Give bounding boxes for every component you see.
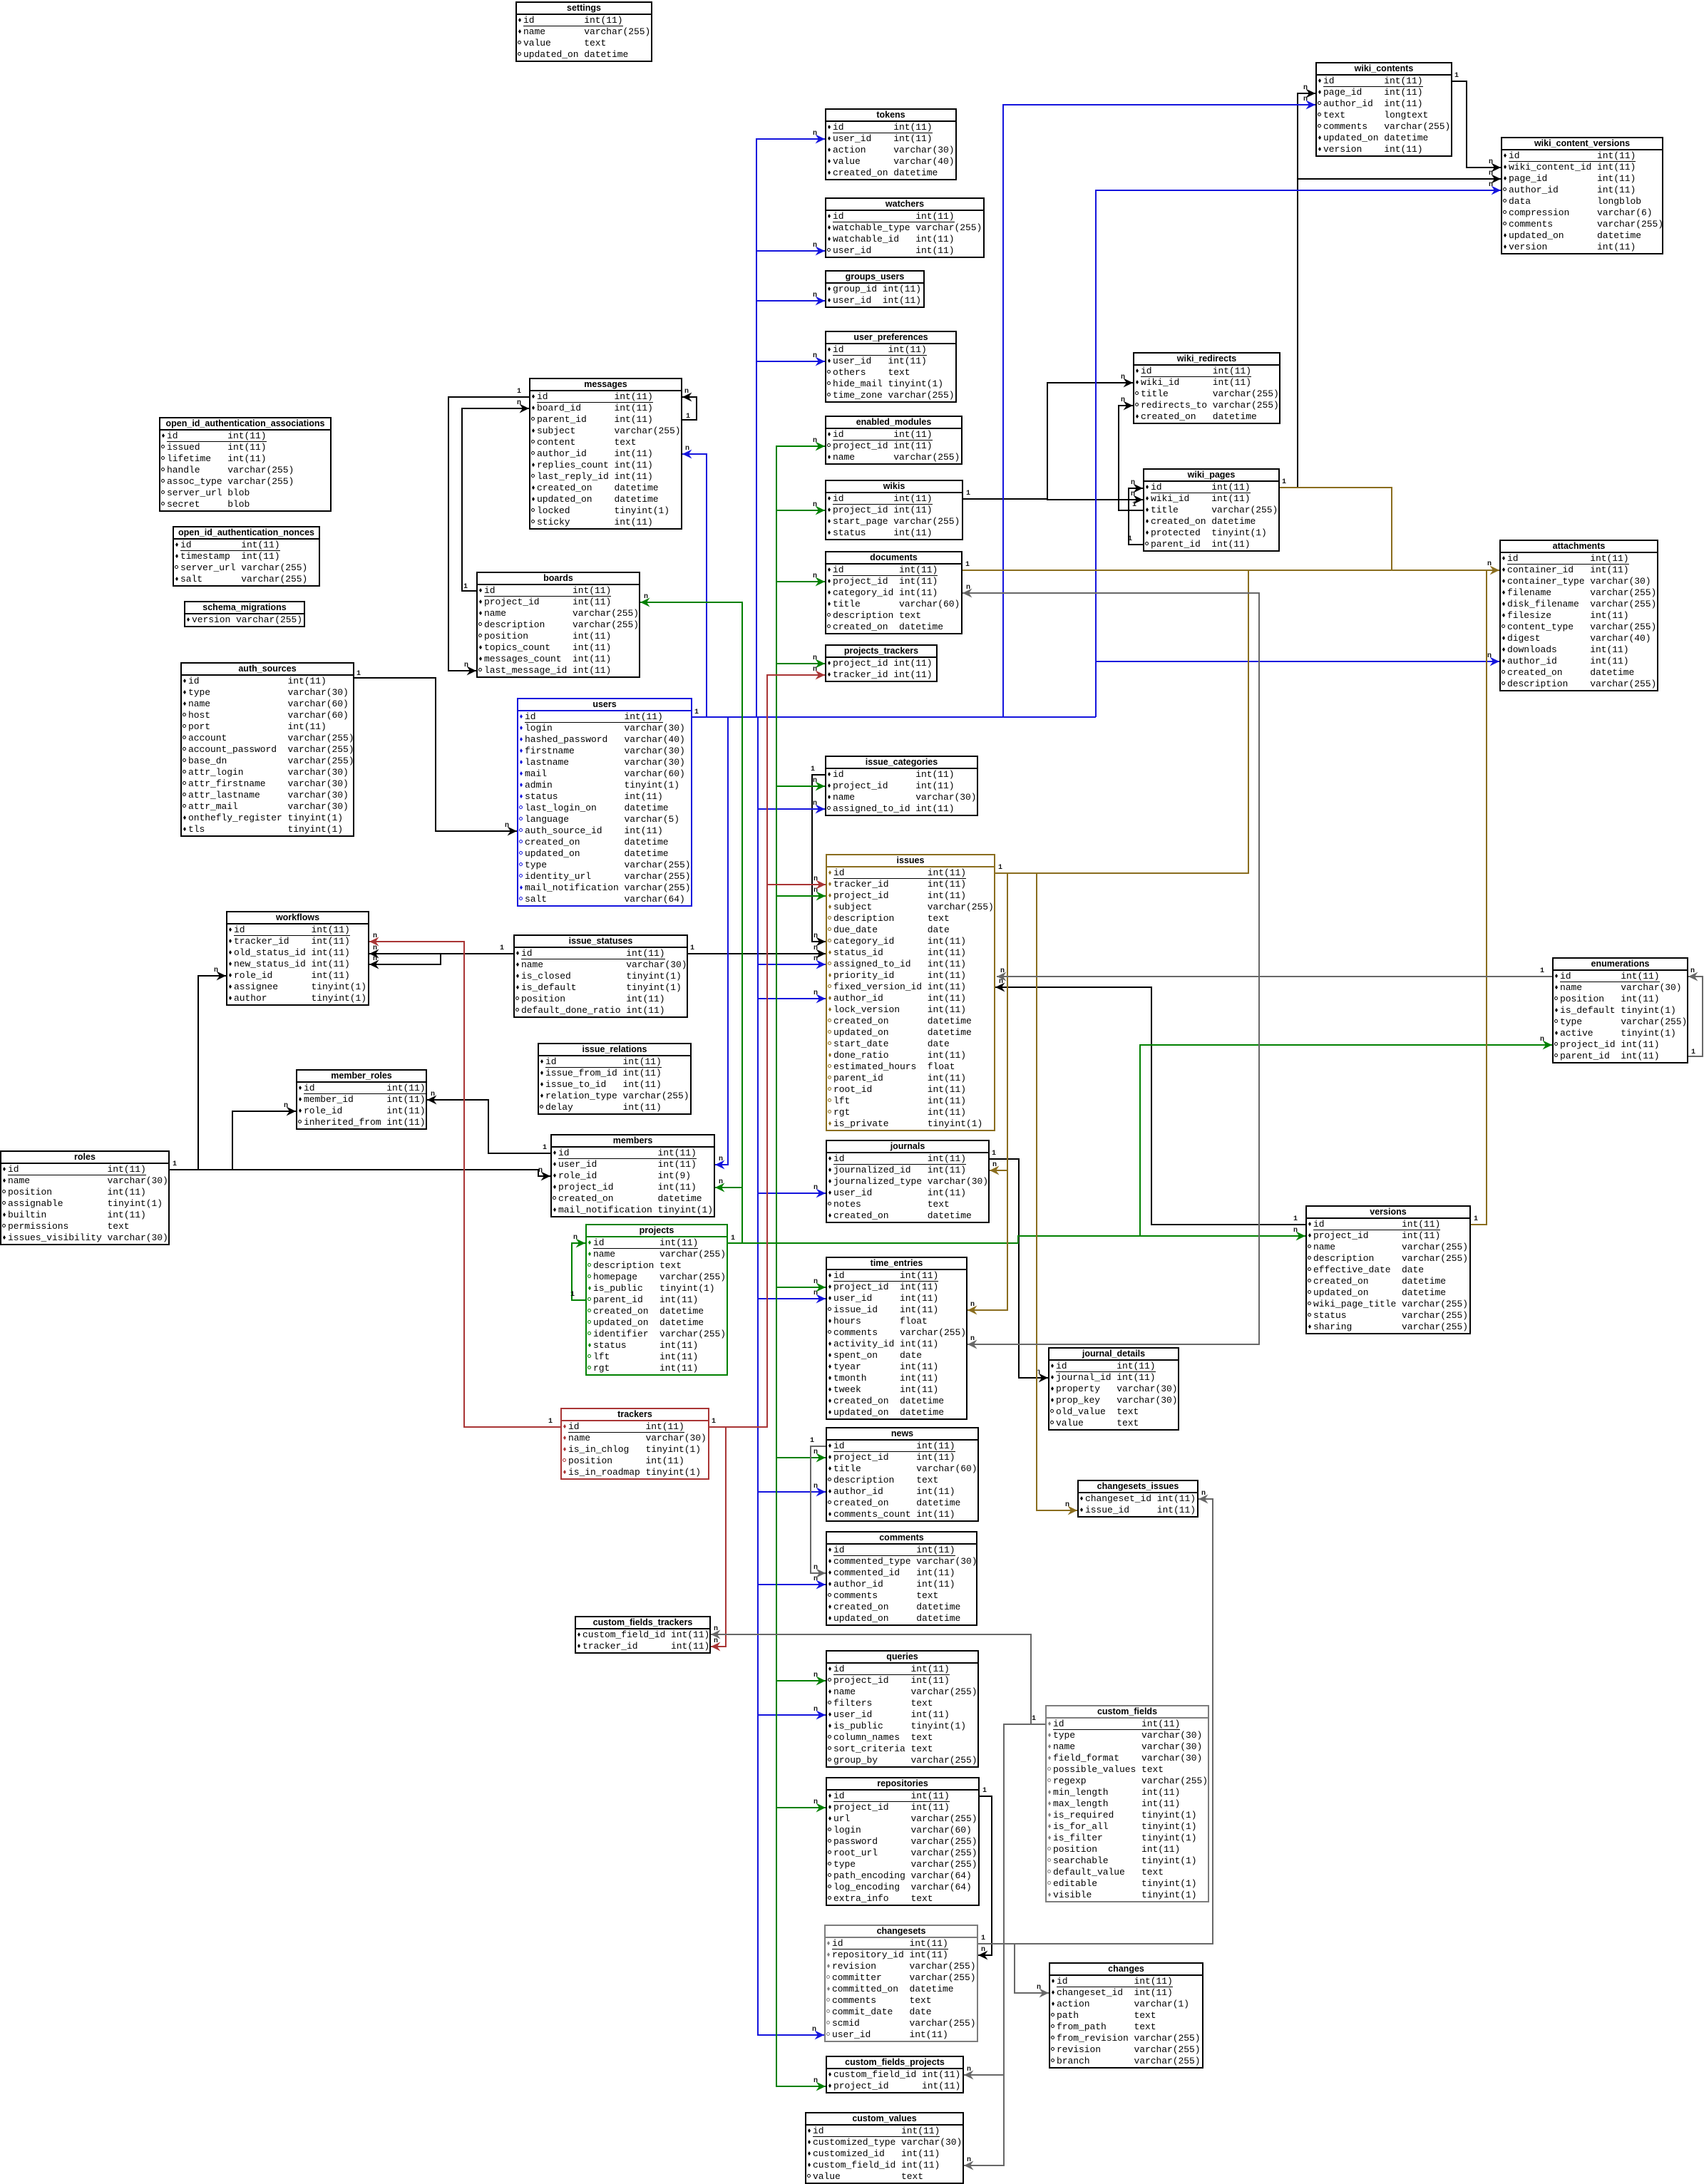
svg-text:n: n <box>812 2026 816 2034</box>
svg-text:n: n <box>714 1625 718 1633</box>
svg-text:1: 1 <box>1032 1715 1036 1723</box>
svg-text:n: n <box>813 1278 818 1286</box>
table wiki_content_versions <box>1501 137 1663 254</box>
svg-text:1: 1 <box>998 864 1002 872</box>
svg-text:1: 1 <box>173 1160 177 1168</box>
wire fk workflows.old_status_id/new_status_id -&gt; issue_statuses.id <box>369 953 513 954</box>
wire fk issues.priority_id -&gt; enumerations.id <box>997 976 1552 977</box>
wire fk issues.assigned_to_id -&gt; users.id <box>758 964 826 965</box>
svg-text:1: 1 <box>1474 1215 1478 1223</box>
wire fk wcv.author_id -&gt; users.id <box>1096 190 1501 717</box>
svg-text:n: n <box>373 955 377 963</box>
svg-text:1: 1 <box>690 944 694 952</box>
table members <box>550 1134 715 1217</box>
wire fk watchers.user_id -&gt; users.id <box>756 250 825 252</box>
table settings <box>515 1 652 62</box>
svg-text:n: n <box>644 593 648 601</box>
svg-text:n: n <box>719 1178 723 1186</box>
wire fk member_roles.member_id -&gt; members.id <box>427 1100 550 1153</box>
svg-text:n: n <box>992 1161 997 1169</box>
wire fk issues.tracker_id -&gt; trackers.id <box>709 675 825 1427</box>
svg-text:n: n <box>813 654 817 662</box>
svg-text:n: n <box>813 352 817 360</box>
svg-text:n: n <box>813 955 818 963</box>
wire fk queries.project_id -&gt; projects.id <box>776 1680 826 1681</box>
table journal_details <box>1048 1347 1179 1431</box>
svg-text:n: n <box>813 1184 818 1192</box>
table versions <box>1305 1205 1471 1334</box>
wire fk workflows.new_status_id -&gt; issue_statuses.id (branch) <box>369 954 441 964</box>
table open_id_authentication_nonces <box>173 526 320 587</box>
svg-text:1: 1 <box>811 766 815 773</box>
wire fk issues.project_id -&gt; projects.id <box>776 895 826 897</box>
svg-text:n: n <box>813 777 817 785</box>
table auth_sources <box>180 662 354 837</box>
table wiki_pages <box>1143 468 1280 552</box>
wire fk time_entries.project_id branch <box>776 1287 826 1288</box>
wire fk comments.author_id -&gt; users.id <box>758 1584 826 1585</box>
wire fk members.user_id -&gt; users.id <box>715 717 728 1165</box>
table issue_categories <box>825 756 978 816</box>
svg-text:1: 1 <box>1128 535 1132 543</box>
table trackers <box>560 1408 709 1480</box>
table journals <box>826 1140 990 1223</box>
wire fk members.role_id -&gt; roles.id <box>198 1170 550 1176</box>
svg-text:1: 1 <box>356 670 361 678</box>
wire fk attachments.container_id -&gt; documents.id <box>963 570 1499 571</box>
wire fk enumerations.parent_id -&gt; enumerations.id (self) <box>1688 977 1703 1056</box>
wire fk attachments.container_id -&gt; versions.id <box>1471 570 1487 1225</box>
wire fk issues.fixed_version_id -&gt; versions.id <box>995 987 1305 1225</box>
svg-text:n: n <box>970 1301 975 1309</box>
svg-text:n: n <box>1489 181 1493 189</box>
wire fk custom_fields_trackers.tracker_id -&gt; trackers.id <box>711 1427 726 1647</box>
wire fk time_entries.issue_id -&gt; issues.id <box>968 1170 1007 1310</box>
table tokens <box>825 108 957 180</box>
wire fk (many).user_id -&gt; users.id trunk <box>692 716 1096 718</box>
wire fk projects_trackers.project_id -&gt; projects.id <box>776 663 825 664</box>
wire fk journal_details.journal_id -&gt; journals.id <box>990 1159 1048 1378</box>
table enabled_modules <box>825 416 963 465</box>
table projects <box>585 1224 728 1376</box>
svg-text:n: n <box>813 437 817 445</box>
svg-text:1: 1 <box>1132 501 1136 509</box>
svg-text:1: 1 <box>686 413 690 421</box>
svg-text:n: n <box>1303 96 1308 103</box>
svg-text:n: n <box>373 944 377 952</box>
svg-text:1: 1 <box>1293 1215 1298 1223</box>
wire fk issues.author_id -&gt; users.id <box>758 998 826 999</box>
svg-text:n: n <box>538 1167 543 1175</box>
svg-text:1: 1 <box>981 1935 985 1942</box>
wire fk changesets_issues.issue_id -&gt; issues.id <box>1037 873 1077 1510</box>
svg-text:n: n <box>1121 374 1125 381</box>
wire fk wiki_contents.page_id / wcv.page_id -&gt; wiki_pages.id <box>1280 93 1315 488</box>
svg-text:n: n <box>813 875 818 883</box>
svg-text:n: n <box>517 399 521 407</box>
wire fk custom_fields_projects.custom_field_id branch <box>964 2074 1004 2076</box>
table custom_fields_projects <box>826 2056 964 2093</box>
table wiki_contents <box>1315 62 1452 157</box>
table changesets_issues <box>1077 1480 1199 1518</box>
svg-text:1: 1 <box>1540 967 1544 975</box>
svg-text:1: 1 <box>712 1418 716 1426</box>
svg-text:n: n <box>813 130 817 138</box>
svg-text:1: 1 <box>1454 72 1459 80</box>
table issues <box>826 854 995 1131</box>
table schema_migrations <box>184 601 305 627</box>
svg-text:n: n <box>1201 1490 1206 1498</box>
svg-text:1: 1 <box>731 1235 735 1242</box>
svg-text:n: n <box>813 1706 818 1714</box>
svg-text:n: n <box>813 292 817 299</box>
svg-text:n: n <box>1065 1501 1069 1509</box>
svg-text:n: n <box>1487 560 1492 568</box>
wire fk changes.changeset_id -&gt; changesets.id <box>1015 1944 1049 1993</box>
table projects_trackers <box>825 644 938 682</box>
table news <box>826 1427 979 1522</box>
wire fk messages.board_id -&gt; boards.id <box>462 408 529 591</box>
wire fk boards.last_message_id -&gt; messages.id <box>448 397 529 671</box>
table user_preferences <box>825 331 957 403</box>
svg-text:n: n <box>981 1946 985 1954</box>
wire fk members.project_id -&gt; projects.id <box>715 1187 742 1188</box>
svg-text:n: n <box>685 445 689 453</box>
svg-text:n: n <box>813 932 818 940</box>
svg-text:n: n <box>1690 967 1695 975</box>
wire fk queries.user_id -&gt; users.id <box>758 1714 826 1716</box>
wire fk changesets.user_id -&gt; users.id (south spine) <box>758 717 824 2035</box>
wire fk enumerations.project_id -&gt; projects.id <box>1140 1045 1552 1236</box>
wire fk changesets.repository_id -&gt; repositories.id <box>978 1796 992 1955</box>
wire fk wiki_pages.parent_id -&gt; wiki_pages.id (self) <box>1129 488 1143 545</box>
wire fk news.project_id -&gt; projects.id <box>776 1457 826 1458</box>
svg-text:1: 1 <box>966 490 970 498</box>
wire fk time_entries.project_id -&gt; projects.id <box>776 1243 826 2086</box>
wire fk news.author_id -&gt; users.id <box>758 1491 826 1493</box>
svg-text:n: n <box>714 1637 718 1645</box>
table queries <box>826 1650 979 1768</box>
wire fk wcv.wiki_content_id -&gt; wiki_contents.id <box>1452 81 1501 168</box>
svg-text:n: n <box>1121 396 1125 404</box>
table member_roles <box>296 1069 427 1130</box>
svg-text:1: 1 <box>810 1437 814 1445</box>
wire fk enabled_modules.project_id -&gt; projects.id <box>776 446 825 1243</box>
table wikis <box>825 480 963 540</box>
svg-text:n: n <box>684 388 689 396</box>
wire fk issue_categories.assigned_to_id -&gt; users.id <box>758 808 825 810</box>
table wiki_redirects <box>1133 352 1280 424</box>
table roles <box>0 1150 170 1245</box>
wire fk journals.journalized_id -&gt; issues.id <box>990 873 1007 1170</box>
svg-text:n: n <box>813 572 817 580</box>
wire fk documents.category_id -&gt; enumerations.id <box>963 593 1259 977</box>
wire fk journals.user_id -&gt; users.id <box>758 1193 826 1194</box>
svg-text:n: n <box>967 2066 971 2074</box>
wire fk attachments.container_id -&gt; wiki_pages.id <box>1280 488 1392 570</box>
wire fk wiki_contents.author_id -&gt; users.id <box>1003 105 1315 717</box>
table enumerations <box>1552 957 1688 1063</box>
table issue_statuses <box>513 934 688 1018</box>
svg-text:1: 1 <box>982 1787 987 1795</box>
svg-text:n: n <box>214 967 218 974</box>
svg-text:n: n <box>813 2077 818 2085</box>
table changes <box>1049 1962 1203 2069</box>
table time_entries <box>826 1257 968 1420</box>
table repositories <box>826 1777 980 1906</box>
wire fk custom_fields_trackers.custom_field_id -&gt; custom_fields.id <box>711 1634 1045 1724</box>
wire fk member_roles.role_id -&gt; roles.id <box>232 1111 296 1170</box>
wire fk attachments.container_id -&gt; issues.id <box>995 570 1248 873</box>
svg-text:n: n <box>573 1234 578 1242</box>
svg-text:n: n <box>813 1672 818 1679</box>
svg-text:n: n <box>813 1798 818 1806</box>
svg-text:n: n <box>967 2156 971 2164</box>
svg-text:n: n <box>813 501 817 509</box>
svg-text:1: 1 <box>517 388 521 396</box>
svg-text:n: n <box>1131 479 1135 487</box>
wire fk wiki_pages.wiki_id -&gt; wikis.id (branch) <box>1047 499 1143 500</box>
svg-text:1: 1 <box>570 1291 575 1299</box>
wire fk time_entries.user_id -&gt; users.id <box>758 1298 826 1299</box>
wire fk workflows.role_id -&gt; roles.id <box>170 976 226 1170</box>
wire fk groups_users.user_id -&gt; users.id <box>756 300 825 302</box>
svg-text:n: n <box>1293 1227 1298 1235</box>
wire fk projects.parent_id -&gt; projects.id (self) <box>572 1243 585 1300</box>
svg-text:n: n <box>1489 158 1493 166</box>
wire fk user_preferences.user_id -&gt; users.id <box>756 361 825 362</box>
svg-text:n: n <box>813 666 817 674</box>
svg-text:n: n <box>813 800 817 808</box>
table custom_fields_trackers <box>575 1616 711 1654</box>
table messages <box>529 378 682 530</box>
svg-text:n: n <box>1303 84 1308 92</box>
svg-text:n: n <box>813 1483 818 1490</box>
svg-text:n: n <box>813 1564 818 1572</box>
svg-text:1: 1 <box>463 583 468 591</box>
svg-text:n: n <box>970 1335 975 1343</box>
table changesets <box>824 1925 978 2042</box>
wire fk workflows.tracker_id -&gt; trackers.id <box>369 942 560 1427</box>
table watchers <box>825 197 985 258</box>
wire fk users.auth_source_id -&gt; auth_sources.id <box>354 678 517 831</box>
svg-text:n: n <box>813 1448 818 1456</box>
svg-text:n: n <box>1487 652 1492 660</box>
svg-text:n: n <box>1540 1036 1544 1044</box>
table issue_relations <box>538 1043 692 1115</box>
svg-text:n: n <box>813 989 818 997</box>
svg-text:n: n <box>431 1091 435 1098</box>
svg-text:n: n <box>1037 1984 1041 1992</box>
svg-text:1: 1 <box>543 1144 547 1152</box>
wire fk wikis.project_id -&gt; projects.id <box>776 510 825 511</box>
wire fk issue_categories.project_id -&gt; projects.id <box>776 785 825 787</box>
wire fk comments.commented_id -&gt; news.id <box>811 1446 826 1573</box>
svg-text:1: 1 <box>965 561 970 569</box>
table custom_fields <box>1045 1705 1209 1902</box>
wire fk issues.status_id -&gt; issue_statuses.id <box>688 953 826 954</box>
wire fk wiki_pages.wiki_id / wiki_redirects.wiki_id -&gt; wikis.id <box>963 383 1133 499</box>
wire fk boards.project_id -&gt; projects.id <box>640 602 742 1243</box>
svg-text:n: n <box>505 822 509 830</box>
table documents <box>825 551 963 634</box>
svg-text:1: 1 <box>1282 478 1286 486</box>
wire fk messages.author_id -&gt; users.id <box>682 454 707 717</box>
svg-text:1: 1 <box>500 944 504 952</box>
wire fk tokens.user_id -&gt; users.id <box>756 139 825 717</box>
wire fk messages.parent_id -&gt; messages.id (self) <box>682 397 697 420</box>
wire fk wiki_redirects.redirects_to -&gt; wiki_pages.title <box>1119 406 1143 510</box>
svg-text:n: n <box>373 932 377 940</box>
svg-text:n: n <box>719 1155 723 1163</box>
wire fk wcv.page_id -&gt; wiki_pages.id (branch) <box>1298 178 1501 180</box>
table custom_values <box>805 2112 964 2184</box>
wire fk attachments.author_id -&gt; users.id <box>1096 661 1499 662</box>
wire fk time_entries.activity_id -&gt; enumerations.id <box>968 977 1259 1344</box>
wire fk repositories.project_id -&gt; projects.id <box>776 1807 826 1808</box>
wire fk changesets_issues.changeset_id -&gt; changesets.id <box>978 1499 1213 1944</box>
svg-text:n: n <box>1000 967 1005 975</box>
svg-text:1: 1 <box>1691 1049 1695 1056</box>
svg-text:n: n <box>813 242 817 249</box>
wire fk (many).project_id -&gt; projects.id trunk <box>728 1236 1305 1243</box>
svg-text:1: 1 <box>992 1150 996 1158</box>
svg-text:n: n <box>284 1102 288 1110</box>
table groups_users <box>825 270 925 308</box>
wire fk custom_fields_projects/values.custom_field_id -&gt; custom_fields.id <box>964 1724 1045 2165</box>
table comments <box>826 1531 977 1626</box>
table workflows <box>226 911 369 1006</box>
svg-text:1: 1 <box>548 1418 553 1426</box>
table users <box>517 698 692 907</box>
wire fk issues.category_id -&gt; issue_categories.id <box>812 775 826 942</box>
table open_id_authentication_associations <box>159 417 332 512</box>
svg-text:1: 1 <box>694 709 699 716</box>
svg-text:n: n <box>966 584 970 592</box>
wire fk documents.project_id -&gt; projects.id <box>776 581 825 582</box>
svg-text:n: n <box>464 661 468 669</box>
table boards <box>476 572 640 678</box>
table attachments <box>1499 540 1658 691</box>
wire fk issues.tracker_id branch <box>767 884 826 885</box>
